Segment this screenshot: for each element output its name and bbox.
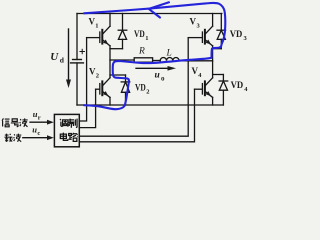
wire left rail upper segment (76, 14, 78, 60)
svg-text:U: U (50, 51, 59, 63)
text 调 (60, 119, 68, 127)
transistor V3 (IGBT upper-right) (188, 14, 212, 46)
wire gate drive to V2 (79, 89, 95, 127)
wire load line left (leg to R) (110, 59, 134, 61)
text 电 (60, 133, 67, 141)
wire carrier input u_c with arrow (23, 135, 54, 140)
text 信 (2, 118, 9, 126)
blue annotation stroke (hand-drawn current path with arrow) (84, 2, 225, 109)
svg-text:VD: VD (134, 29, 145, 39)
diode VD1 (freewheel upper-left) (110, 14, 127, 49)
wire left rail lower segment (76, 63, 78, 105)
wire top rail (+ DC bus) (77, 13, 222, 15)
wire R to L (153, 60, 160, 62)
text 路 (68, 133, 77, 142)
svg-text:VD: VD (230, 29, 243, 39)
transistor V1 (IGBT upper-left) (87, 14, 110, 46)
svg-text:o: o (161, 75, 165, 83)
svg-text:c: c (37, 130, 40, 137)
wire gate drive to V1 (79, 38, 86, 121)
text 波 (20, 118, 28, 126)
wire bottom rail (- DC bus) (77, 104, 223, 106)
blue arrowhead pointing left (149, 2, 169, 17)
svg-text:r: r (38, 115, 41, 122)
wire signal input u_r with arrow (30, 120, 54, 125)
svg-text:VD: VD (135, 83, 146, 93)
svg-text:VD: VD (231, 80, 244, 90)
svg-text:2: 2 (146, 89, 149, 96)
text 载 (4, 134, 12, 142)
svg-text:R: R (138, 47, 145, 57)
wire L to right leg (179, 60, 213, 62)
resistor R (load box) (134, 58, 152, 62)
modulation circuit box (54, 114, 79, 146)
transistor V4 (IGBT lower-right) (195, 78, 213, 105)
inductor L (3 humps) (160, 58, 179, 61)
svg-text:1: 1 (145, 35, 148, 42)
Ud source voltage arrow (66, 29, 71, 88)
svg-text:L: L (166, 49, 172, 59)
capacitor C (filter cap, plates) (71, 49, 85, 63)
diode VD4 (freewheel lower-right) (213, 75, 228, 106)
wire gate drive to V3 (79, 38, 188, 137)
wire gate drive to V4 (79, 89, 194, 142)
text 号 (11, 119, 19, 127)
text 波 (second) (14, 134, 22, 142)
CJK labels drawn as strokes (2, 118, 78, 142)
svg-text:u: u (155, 71, 160, 81)
text 制 (68, 119, 77, 128)
wire left leg mid (V1 emitter to V2 collector) (109, 46, 111, 78)
u_o output arrow (136, 66, 176, 71)
diode VD2 (freewheel lower-left) (110, 75, 130, 105)
diode VD3 (freewheel upper-right) (213, 14, 226, 49)
svg-text:2: 2 (96, 73, 99, 80)
wire right leg mid (V3 emitter to V4 collector) (212, 46, 214, 78)
transistor V2 (IGBT lower-left) (96, 78, 110, 105)
svg-text:1: 1 (95, 23, 98, 30)
svg-text:V: V (190, 17, 197, 27)
